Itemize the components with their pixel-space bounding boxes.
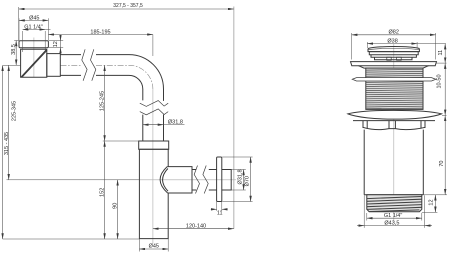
dimension D43,5 body [363,195,365,228]
down pipe below break [143,115,164,141]
centerline of inlet pipe (dash-dot, top drawing) [61,64,82,66]
svg-text:Ø31,8: Ø31,8 [238,170,244,185]
inlet pipe after break with 90 degree bend down [96,55,164,101]
dimension D31,8 wall stub [231,169,245,171]
dimension 10-50 thread clamp range [442,114,447,116]
ball joint housing on trap outlet [167,167,192,193]
svg-text:Ø43,5: Ø43,5 [384,221,399,227]
dimension 315-435 [2,65,4,239]
vertical centerline shared by down pipe and trap body [152,89,154,243]
dimension 11 escutcheon thickness [216,202,218,211]
svg-text:Ø45: Ø45 [29,15,39,21]
pop-up pin tabs [387,57,391,60]
svg-text:12: 12 [429,199,435,205]
svg-text:11: 11 [438,50,444,56]
wall pipe stub [222,170,231,191]
dimension 70 body length [423,194,447,196]
plug cap dome underside rim [368,48,419,49]
trap cap ring [139,141,169,149]
svg-text:G1 1/4": G1 1/4" [384,213,403,219]
extension line trap cap top [103,140,139,142]
svg-text:38,5: 38,5 [11,44,17,55]
svg-text:Ø70: Ø70 [244,176,250,186]
break symbol on outlet pipe (two zigzags) [194,166,208,194]
bottom male thread G1 1/4 [367,195,422,212]
plug stem slab [375,57,413,60]
svg-text:90: 90 [112,203,118,209]
svg-text:Ø82: Ø82 [388,30,398,36]
dimension 12 flange height [49,40,63,42]
svg-text:327,5 - 357,5: 327,5 - 357,5 [113,3,143,9]
svg-text:Ø45: Ø45 [149,244,159,250]
dimension 225-345 [8,65,10,180]
svg-text:225-345: 225-345 [11,101,17,121]
svg-text:70: 70 [439,161,445,167]
valve body tube [364,130,423,195]
centerline continues after pipe break [96,65,153,89]
svg-text:10-50: 10-50 [436,74,442,88]
dimension 152 [104,141,106,239]
top flange disc D82 [351,62,437,66]
dimension 120-140 wall distance [153,228,234,230]
svg-text:315 - 435: 315 - 435 [4,132,10,155]
lower dish flange [348,110,442,119]
svg-text:120-140: 120-140 [186,224,206,230]
inlet pipe before break [60,55,81,76]
threaded barrel (upper thread 10-50) [366,68,423,109]
dimension D45 trap body [138,239,140,252]
wall line (mounting wall, light gray vertical) [233,7,235,229]
break symbol on down pipe (two zigzags) [140,101,168,107]
extension line outlet centerline to left [7,179,140,181]
svg-text:Ø38: Ø38 [387,38,397,44]
trap body cylinder [139,149,168,238]
dimension D38 plug cap [366,42,368,48]
svg-text:185-195: 185-195 [90,29,110,35]
plug ring slab 3 [371,55,416,57]
svg-text:12: 12 [53,41,59,47]
dimension G1 1/4 bottom thread [366,213,368,221]
dimension 11 valve cap height [436,62,447,64]
flange shoulder cone [359,66,429,68]
centerline of wall flange (top drawing) [33,38,35,78]
plug cap rim slab [368,49,419,52]
dimension 327,5-357,5 overall length [19,8,234,10]
wall escutcheon flange [217,157,222,202]
svg-text:152: 152 [99,188,105,197]
dimension G1 1/4 thread [23,29,46,31]
dimension 90 [117,180,119,239]
dimension D45 flange [19,19,48,21]
thread ridges upper [366,69,423,108]
locknut below dish [353,120,435,122]
dimension D31,8 down pipe [143,124,164,126]
thread ridges lower [367,197,422,212]
svg-text:Ø31,8: Ø31,8 [168,120,183,126]
svg-text:11: 11 [217,211,223,217]
svg-text:125-245: 125-245 [99,91,105,111]
elbow body [21,49,47,77]
outlet pipe to wall [192,170,217,191]
centerline of drain valve (right drawing) [393,44,395,222]
dimension D70 escutcheon [222,156,252,158]
dimension 12 bottom thread length [422,211,438,213]
svg-text:G1 1/4": G1 1/4" [24,25,43,31]
dimension D82 valve flange [351,33,353,60]
wall flange nut G1 1/4 [19,41,48,48]
plug ring slab 2 [369,52,418,55]
sealing washer on thread [352,78,436,81]
break symbol on inlet pipe (two zigzags) [82,49,168,115]
dimension 38,5 [15,41,17,66]
extension line trap bottom to left [3,238,140,240]
elbow weld diagonal (double line) [21,50,46,78]
dimension 125-245 [104,65,106,141]
plug cap dome [368,47,419,49]
centerline of trap outlet (horizontal, gray) [139,179,236,181]
extension line inlet centerline to left [3,64,21,66]
compression nut on elbow outlet [47,54,61,77]
dimension 185-195 pipe length [48,34,152,36]
